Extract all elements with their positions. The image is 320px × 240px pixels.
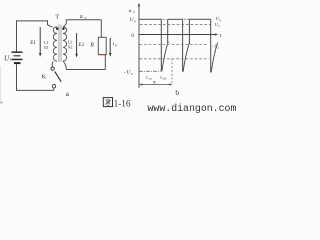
graph x-axis <box>139 33 218 35</box>
switch K blade <box>55 71 62 81</box>
edge smudge left <box>0 66 1 104</box>
label toff <box>160 76 167 81</box>
arrow E1 <box>39 27 42 57</box>
arrow E2 <box>75 33 78 58</box>
svg-text:o: o <box>115 43 117 47</box>
label ton <box>146 76 152 81</box>
label Up left <box>130 17 136 23</box>
waveform pulse 3 top <box>189 18 210 20</box>
svg-text:T: T <box>55 13 59 20</box>
dash-dot level -Up <box>140 70 162 72</box>
svg-text:u: u <box>80 13 83 20</box>
wire top-left horizontal (battery to transformer primary) <box>17 20 48 22</box>
transformer T secondary winding <box>63 27 67 62</box>
polarity dot secondary <box>62 27 65 30</box>
waveform pulse 1 top <box>139 18 161 20</box>
wire bottom horizontal <box>16 88 54 91</box>
dashed level Ua <box>140 24 211 26</box>
svg-text:E2: E2 <box>78 42 84 48</box>
label -Up <box>124 70 133 76</box>
wire bottom right horizontal <box>66 69 105 71</box>
svg-text:o: o <box>85 15 87 20</box>
resistor R box <box>98 37 106 54</box>
waveform recovery curve 2 <box>183 42 190 72</box>
waveform recovery curve 3 <box>211 43 218 73</box>
dash gap 2 at Up level <box>184 18 189 20</box>
label Ua right <box>215 22 221 28</box>
svg-text:www.diangon.com: www.diangon.com <box>148 103 237 114</box>
label i0 <box>113 41 117 47</box>
dashed level lower <box>140 58 210 60</box>
wire top right horizontal <box>66 19 101 21</box>
label -Ua <box>212 43 220 49</box>
waveform recovery curve 1 <box>162 42 169 72</box>
svg-text:1-16: 1-16 <box>114 98 131 108</box>
wire secondary bottom lead <box>63 61 66 69</box>
svg-text:p: p <box>131 72 133 76</box>
svg-text:b: b <box>175 88 179 97</box>
battery Ui <box>12 51 23 64</box>
waveform pulse 1 trailing edge <box>160 19 162 71</box>
label Up right <box>216 16 222 22</box>
transformer T core <box>59 25 61 63</box>
wire secondary top lead <box>63 20 66 27</box>
wire switch to primary bottom <box>52 61 53 67</box>
graph y-axis <box>138 3 140 88</box>
dashed vertical period marker <box>171 59 173 86</box>
polarity dot primary <box>56 27 59 30</box>
label L2 N2 <box>68 40 73 50</box>
label Ui <box>4 55 12 63</box>
svg-text:on: on <box>148 77 152 81</box>
svg-text:K: K <box>42 73 47 80</box>
waveform pulse 2 rising edge <box>167 19 169 43</box>
wire left vertical (top wire down to battery +) <box>16 20 18 51</box>
wire into resistor top <box>100 20 102 38</box>
svg-text:E1: E1 <box>30 40 36 46</box>
dashed level -Ua <box>140 44 209 46</box>
svg-text:-: - <box>124 70 126 76</box>
svg-text:N1: N1 <box>44 45 49 50</box>
wire primary top lead <box>48 20 53 27</box>
dash-dot gap 1 at Up level <box>163 18 167 20</box>
transformer T primary winding <box>53 27 57 62</box>
switch K top contact <box>51 67 54 70</box>
label u0 <box>80 13 87 20</box>
svg-text:p: p <box>134 19 136 23</box>
arrow i0 <box>109 38 112 57</box>
svg-text:u: u <box>129 8 132 14</box>
svg-text:N2: N2 <box>68 45 73 50</box>
wire battery bottom vertical <box>16 64 18 90</box>
speck bottom left <box>1 102 3 104</box>
svg-text:0: 0 <box>131 33 134 39</box>
wire resistor bottom to loop <box>104 55 106 70</box>
waveform pulse 3 rising edge <box>188 19 190 44</box>
dimension line T <box>139 83 173 85</box>
label uo axis <box>129 8 135 14</box>
caption glyph 图 <box>103 98 112 107</box>
waveform pulse 3 trailing edge <box>210 19 212 72</box>
waveform pulse 2 trailing edge <box>182 19 184 71</box>
svg-text:o: o <box>133 10 135 14</box>
label L1 N1 <box>44 40 49 50</box>
switch K bottom contact <box>52 85 55 88</box>
waveform pulse 2 top <box>168 18 183 20</box>
svg-text:R: R <box>89 41 94 48</box>
